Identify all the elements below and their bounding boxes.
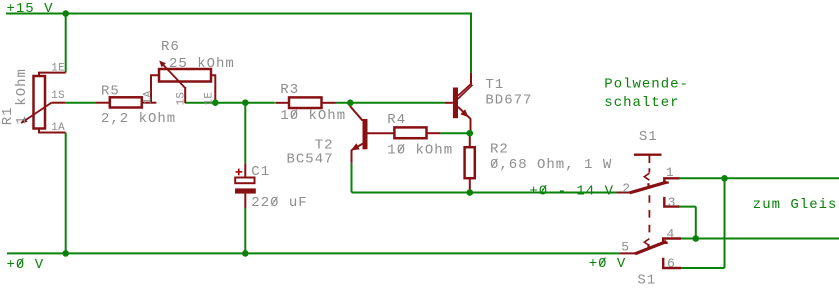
svg-text:R5: R5	[101, 84, 120, 100]
svg-text:R3: R3	[280, 82, 299, 98]
svg-text:5: 5	[621, 240, 629, 255]
svg-text:1E: 1E	[51, 62, 65, 74]
svg-text:+0 V: +0 V	[589, 256, 627, 272]
svg-text:R4: R4	[387, 112, 406, 128]
svg-text:1: 1	[666, 165, 674, 180]
svg-text:1E: 1E	[204, 92, 216, 106]
svg-text:2: 2	[622, 181, 630, 196]
svg-text:BC547: BC547	[286, 151, 333, 167]
svg-text:1 kOhm: 1 kOhm	[14, 68, 30, 124]
svg-text:zum Gleis: zum Gleis	[753, 197, 838, 213]
svg-text:S1: S1	[637, 273, 656, 288]
svg-text:6: 6	[667, 256, 675, 271]
svg-text:2,2 kOhm: 2,2 kOhm	[101, 111, 176, 127]
svg-text:220 uF: 220 uF	[251, 195, 307, 211]
svg-text:T1: T1	[485, 77, 504, 93]
svg-text:10 kOhm: 10 kOhm	[387, 142, 453, 158]
svg-text:25 kOhm: 25 kOhm	[169, 56, 235, 72]
svg-text:R2: R2	[490, 142, 509, 158]
svg-text:3: 3	[668, 195, 676, 210]
svg-text:4: 4	[667, 226, 675, 241]
svg-text:1A: 1A	[51, 122, 65, 134]
svg-text:BD677: BD677	[485, 92, 532, 108]
svg-text:Polwende-: Polwende-	[604, 77, 689, 93]
svg-text:1S: 1S	[175, 92, 187, 106]
svg-text:10 kOhm: 10 kOhm	[280, 108, 346, 124]
svg-text:1A: 1A	[143, 90, 155, 104]
svg-text:0,68 Ohm, 1 W: 0,68 Ohm, 1 W	[490, 157, 612, 173]
svg-text:R6: R6	[161, 39, 180, 55]
svg-text:+15 V: +15 V	[7, 1, 54, 17]
svg-text:C1: C1	[251, 164, 270, 180]
svg-text:S1: S1	[639, 129, 658, 145]
svg-text:1S: 1S	[51, 90, 65, 102]
svg-text:schalter: schalter	[604, 95, 679, 111]
svg-text:+0 V: +0 V	[7, 257, 45, 273]
